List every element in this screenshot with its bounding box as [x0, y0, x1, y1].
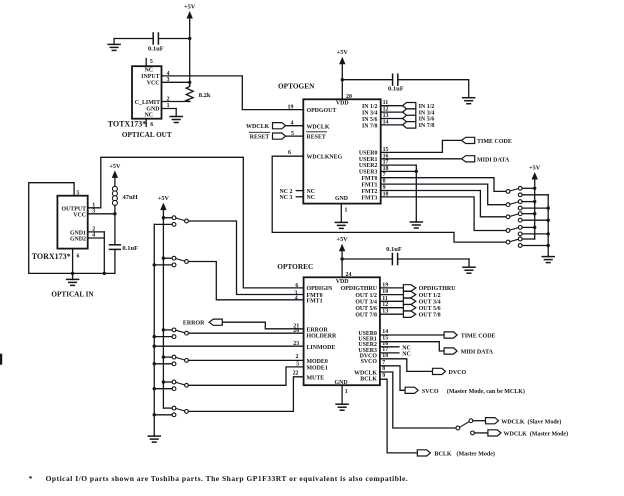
- WDCLK (Slave Mode) flag: [486, 418, 562, 426]
- +5V supply (left switch rail): [158, 195, 170, 408]
- svg-text:BCLK: BCLK: [360, 377, 377, 383]
- svg-text:2: 2: [167, 96, 170, 102]
- svg-text:MIDI DATA: MIDI DATA: [461, 350, 494, 356]
- IN 1/2 - IN 7/8 input flags (OPTOGEN pins 11-14): [381, 100, 435, 129]
- wire ERROR flag to OPTOREC pin 21: [222, 322, 303, 329]
- note: optical parts compatibility: [29, 474, 408, 483]
- svg-text:+5V: +5V: [337, 236, 349, 243]
- wire BCLK pin 9 to flag: [380, 373, 417, 453]
- switch S7 (FMT0 select): [506, 186, 548, 196]
- svg-text:(Master Mode, can be MCLK): (Master Mode, can be MCLK): [447, 388, 525, 395]
- USER3 pin 17 NC stub: [380, 347, 411, 358]
- svg-text:TIME CODE: TIME CODE: [477, 139, 512, 145]
- ground (TOTX GND): [170, 109, 182, 123]
- svg-text:SVCO: SVCO: [361, 359, 378, 365]
- svg-text:LINMODE: LINMODE: [307, 345, 336, 351]
- svg-text:5: 5: [291, 131, 294, 137]
- pin 4 label (TOTX INPUT): [167, 71, 170, 77]
- svg-text:18: 18: [382, 353, 388, 359]
- svg-text:19: 19: [382, 282, 388, 288]
- label TORX173*: [32, 252, 71, 261]
- svg-text:8: 8: [382, 366, 385, 372]
- svg-text:20: 20: [293, 328, 299, 334]
- svg-text:NC: NC: [402, 351, 411, 357]
- label OPTICAL IN: [51, 291, 94, 299]
- svg-text:FMT2: FMT2: [361, 189, 377, 195]
- switch S10 (FMT3 select): [506, 226, 550, 236]
- wire LINMODE pin 23 to ground rail: [153, 341, 304, 348]
- svg-text:16: 16: [383, 153, 389, 159]
- wire ground rail (right switches): [547, 195, 549, 257]
- svg-text:+5V: +5V: [158, 195, 170, 202]
- svg-text:9: 9: [382, 373, 385, 379]
- switch S2 (OPTOREC FMT1 select): [153, 256, 189, 266]
- svg-text:1: 1: [345, 389, 348, 395]
- svg-text:OPDIGIN: OPDIGIN: [307, 286, 334, 292]
- wire FMT3 pin 10 to switch S10: [381, 191, 507, 230]
- wire S4 to OPTOREC MODE0 pin 2: [188, 354, 303, 360]
- wire TOTX GND pin 1: [162, 103, 177, 109]
- svg-text:22: 22: [293, 371, 299, 377]
- +5V supply (right switch rail): [529, 165, 541, 240]
- NC pin 2 (OPTOGEN): [280, 189, 304, 195]
- svg-text:OPDIGTHRU: OPDIGTHRU: [419, 286, 457, 292]
- wire TORX GND2 pin 4: [88, 232, 106, 275]
- svg-text:MIDI DATA: MIDI DATA: [477, 157, 510, 163]
- svg-text:GND2: GND2: [70, 237, 86, 243]
- svg-text:TORX173*: TORX173*: [32, 252, 71, 261]
- svg-text:2: 2: [92, 227, 95, 233]
- DVCO flag: [433, 368, 467, 376]
- svg-text:4: 4: [295, 296, 298, 302]
- svg-text:+5V: +5V: [337, 49, 349, 56]
- svg-text:(Slave Mode): (Slave Mode): [528, 418, 562, 425]
- +5V supply (OPTOGEN VDD): [337, 49, 352, 100]
- capacitor C2 0.1uF (OPTOGEN bypass): [341, 74, 469, 92]
- switch S8 (FMT1 select): [506, 200, 550, 210]
- svg-text:MUTE: MUTE: [307, 376, 325, 382]
- svg-text:WDCLK: WDCLK: [246, 124, 270, 130]
- wire USER1 pin 16 to MIDI DATA flag: [381, 153, 462, 159]
- svg-text:BCLK: BCLK: [435, 452, 452, 458]
- svg-text:NC: NC: [144, 112, 153, 118]
- svg-text:18: 18: [383, 166, 389, 172]
- WDCLK (Master Mode) flag: [488, 430, 568, 438]
- inductor L1 47uH: [112, 186, 137, 205]
- svg-text:IN 5/6: IN 5/6: [362, 117, 378, 123]
- ground (C2): [463, 80, 475, 104]
- svg-text:19: 19: [288, 104, 294, 110]
- svg-text:10: 10: [383, 191, 389, 197]
- svg-text:13: 13: [383, 113, 389, 119]
- svg-text:12: 12: [383, 107, 389, 113]
- wire FMT1 pin 8 to switch S8: [381, 179, 507, 205]
- BCLK (Master Mode) flag: [417, 450, 495, 458]
- wire ground rail (left switches): [153, 224, 155, 436]
- svg-text:13: 13: [382, 309, 388, 315]
- svg-text:RESET: RESET: [307, 135, 326, 141]
- svg-text:WDCLKNEG: WDCLKNEG: [307, 155, 343, 161]
- svg-text:GND1: GND1: [70, 230, 86, 236]
- resistor R1 8.2k: [186, 82, 211, 101]
- svg-text:HOLDERR: HOLDERR: [307, 334, 338, 340]
- wire OPDGOUT: TOTX INPUT to OPTOGEN pin 19: [162, 76, 304, 110]
- switch S11 (WDCLKNEG select): [506, 237, 550, 247]
- svg-text:ERROR: ERROR: [307, 327, 329, 333]
- svg-text:C_LIMIT: C_LIMIT: [135, 100, 160, 106]
- label TOTX173*: [108, 120, 147, 129]
- wire TORX VCC pin 3: [88, 205, 117, 215]
- ground (C3): [463, 259, 475, 273]
- wire USER0 pin 15 to TIME CODE flag: [381, 140, 462, 153]
- svg-text:OUT 5/6: OUT 5/6: [419, 306, 441, 312]
- wire S5 to OPTOREC MODE1 pin 5: [188, 362, 303, 386]
- label OPTOGEN: [278, 81, 315, 90]
- +5V supply (TOTX pull-up): [184, 4, 196, 86]
- svg-text:WDCLK: WDCLK: [354, 370, 377, 376]
- svg-text:NC: NC: [307, 189, 316, 195]
- svg-text:12: 12: [382, 302, 388, 308]
- svg-text:4: 4: [92, 233, 95, 239]
- svg-text:1: 1: [167, 103, 170, 109]
- svg-text:3: 3: [92, 209, 95, 215]
- svg-text:VDD: VDD: [336, 101, 349, 107]
- svg-text:47uH: 47uH: [123, 194, 138, 201]
- wire USER0 pin 14 to TIME CODE flag: [380, 329, 444, 335]
- wire WDCLKNEG pin 6 to switch S11: [272, 150, 506, 242]
- svg-text:ERROR: ERROR: [183, 321, 205, 327]
- wire TOTX VCC pin 3 to +5V: [162, 77, 192, 84]
- svg-text:+5V: +5V: [109, 163, 121, 170]
- svg-text:FMT3: FMT3: [361, 195, 377, 201]
- +5V supply (OPTOREC VDD): [337, 236, 352, 278]
- svg-text:FMT1: FMT1: [361, 182, 377, 188]
- svg-text:8.2k: 8.2k: [199, 92, 211, 99]
- svg-text:USER3: USER3: [359, 170, 378, 176]
- ERROR flag: [183, 319, 222, 327]
- svg-text:6: 6: [295, 283, 298, 289]
- label OPTOREC: [277, 262, 313, 271]
- svg-text:14: 14: [382, 329, 388, 335]
- scan artifact mark (left edge): [0, 354, 2, 365]
- svg-text:OUT 1/2: OUT 1/2: [355, 293, 377, 299]
- optical receiver U3 TORX173*: [57, 196, 87, 274]
- svg-text:INPUT: INPUT: [141, 74, 159, 80]
- RESET input flag: [250, 131, 304, 141]
- wire USER2 pin 17 to ground: [381, 160, 417, 222]
- wire FMT2 pin 9 to switch S9: [381, 185, 507, 217]
- svg-text:OPTICAL IN: OPTICAL IN: [51, 291, 94, 299]
- svg-text:0.1uF: 0.1uF: [386, 246, 402, 253]
- svg-text:MODE0: MODE0: [307, 359, 328, 365]
- svg-text:11: 11: [382, 296, 388, 302]
- svg-text:17: 17: [383, 160, 389, 166]
- svg-text:OUT 1/2: OUT 1/2: [419, 293, 441, 299]
- svg-text:VCC: VCC: [73, 213, 86, 219]
- OPDIGTHRU / OUT output flags (OPTOREC pins 19,10-13): [380, 282, 456, 318]
- svg-text:+5V: +5V: [529, 165, 541, 172]
- svg-text:TOTX173*: TOTX173*: [108, 120, 147, 129]
- svg-text:DVCO: DVCO: [449, 370, 467, 376]
- svg-text:16: 16: [382, 341, 388, 347]
- svg-text:0.1uF: 0.1uF: [122, 245, 138, 252]
- NC pin 3 (OPTOGEN): [280, 195, 304, 201]
- svg-text:14: 14: [383, 119, 389, 125]
- svg-text:OUT 7/8: OUT 7/8: [419, 312, 441, 318]
- svg-text:23: 23: [293, 341, 299, 347]
- svg-text:GND: GND: [335, 196, 348, 202]
- svg-text:USER2: USER2: [359, 163, 378, 169]
- ground (right switch rail): [542, 256, 554, 263]
- svg-text:+5V: +5V: [184, 4, 196, 11]
- svg-text:9: 9: [383, 185, 386, 191]
- switch S5 (MODE1 select): [153, 380, 189, 391]
- wire DVCO pin 18 to flag: [380, 353, 433, 372]
- pin 6 label (OPDIGIN): [295, 283, 298, 289]
- svg-text:NC: NC: [402, 345, 411, 351]
- svg-text:OUT 7/8: OUT 7/8: [355, 313, 377, 319]
- wire FMT0 pin 7 to switch S7: [381, 172, 507, 191]
- capacitor C3 0.1uF (OPTOREC bypass): [340, 246, 469, 264]
- svg-text:FMT0: FMT0: [361, 176, 377, 182]
- optical transmitter U1 TOTX173*: [132, 59, 162, 129]
- svg-text:6: 6: [150, 122, 153, 128]
- svg-text:IN 3/4: IN 3/4: [419, 110, 435, 116]
- svg-text:6: 6: [77, 254, 80, 260]
- ground (TORX pin 6): [67, 272, 79, 286]
- svg-text:5: 5: [296, 362, 299, 368]
- wire SVCO pin 7 to flag: [380, 360, 405, 391]
- svg-text:RESET: RESET: [250, 135, 270, 141]
- svg-text:IN 3/4: IN 3/4: [362, 110, 378, 116]
- svg-text:USER0: USER0: [359, 151, 378, 157]
- TIME CODE flag (OPTOGEN): [462, 137, 512, 145]
- svg-text:11: 11: [383, 100, 389, 106]
- svg-text:WDCLK: WDCLK: [501, 419, 525, 425]
- svg-text:0.1uF: 0.1uF: [148, 46, 164, 53]
- svg-text:USER1: USER1: [359, 157, 378, 163]
- svg-text:5: 5: [150, 59, 153, 65]
- svg-text:IN 7/8: IN 7/8: [362, 123, 378, 129]
- TIME CODE flag (OPTOREC): [444, 332, 495, 340]
- MIDI DATA flag (OPTOREC): [444, 348, 494, 356]
- svg-text:2: 2: [296, 354, 299, 360]
- wire TORX OUTPUT pin 1 to OPTOREC OPDIGIN: [88, 157, 304, 288]
- svg-text:GND: GND: [335, 380, 348, 386]
- svg-text:OPTICAL OUT: OPTICAL OUT: [122, 131, 172, 139]
- svg-text:*: *: [29, 474, 33, 483]
- svg-text:3: 3: [167, 77, 170, 83]
- svg-text:OPDIGTHRU: OPDIGTHRU: [341, 286, 378, 292]
- svg-text:NC: NC: [144, 68, 153, 74]
- capacitor C4 0.1uF (TORX bypass): [110, 214, 139, 274]
- svg-text:10: 10: [382, 289, 388, 295]
- svg-text:4: 4: [291, 120, 294, 126]
- svg-text:0.1uF: 0.1uF: [388, 85, 404, 92]
- WDCLK input flag: [246, 120, 303, 130]
- svg-text:15: 15: [383, 147, 389, 153]
- ground (OPTOREC GND pin 1): [336, 385, 348, 410]
- svg-text:IN 5/6: IN 5/6: [419, 117, 435, 123]
- label OPTICAL OUT: [122, 131, 172, 139]
- switch S9 (FMT2 select): [506, 212, 550, 222]
- +5V supply (TORX via L1): [109, 163, 121, 187]
- ground (OPTOGEN GND pin 1): [335, 204, 347, 229]
- switch S12 (WDCLK slave/master): [456, 419, 488, 435]
- svg-text:IN 1/2: IN 1/2: [419, 104, 435, 110]
- svg-text:NC: NC: [307, 195, 316, 201]
- svg-text:NC 3: NC 3: [280, 195, 293, 201]
- svg-text:7: 7: [382, 360, 385, 366]
- switch S4 (MODE0 select): [153, 355, 189, 365]
- svg-text:1: 1: [345, 208, 348, 214]
- svg-text:MODE1: MODE1: [307, 365, 328, 371]
- IC U4 OPTOREC: [304, 277, 380, 386]
- svg-text:FMT1: FMT1: [307, 299, 323, 305]
- svg-text:OPDGOUT: OPDGOUT: [307, 108, 337, 114]
- svg-text:IN 7/8: IN 7/8: [419, 123, 435, 129]
- svg-text:8: 8: [383, 179, 386, 185]
- svg-text:OPTOREC: OPTOREC: [277, 262, 313, 271]
- svg-text:OUT 3/4: OUT 3/4: [355, 300, 377, 306]
- MIDI DATA flag (OPTOGEN): [462, 156, 510, 164]
- svg-text:Optical I/O parts shown are To: Optical I/O parts shown are Toshiba part…: [46, 474, 409, 483]
- svg-text:TIME CODE: TIME CODE: [461, 334, 496, 340]
- USER2 pin 16 NC stub: [380, 341, 411, 352]
- wire TOTX C_LIMIT pin 2 to R1: [162, 96, 190, 102]
- svg-text:WDCLK: WDCLK: [504, 432, 528, 438]
- wire USER3 pin 18 to ground: [381, 166, 418, 173]
- svg-text:WDCLK: WDCLK: [307, 124, 330, 130]
- svg-text:7: 7: [383, 172, 386, 178]
- switch S1 (OPTOREC FMT0 select): [154, 216, 188, 227]
- svg-text:6: 6: [288, 150, 291, 156]
- svg-text:VCC: VCC: [147, 81, 160, 87]
- wire WDCLK pin 8 to mode switch: [380, 366, 456, 428]
- svg-text:(Master Mode): (Master Mode): [530, 431, 568, 438]
- svg-text:OUTPUT: OUTPUT: [61, 206, 86, 212]
- svg-text:OPTOGEN: OPTOGEN: [278, 81, 315, 90]
- svg-text:VDD: VDD: [336, 279, 349, 285]
- svg-text:OUT 3/4: OUT 3/4: [419, 300, 441, 306]
- capacitor C1 0.1uF (TOTX supply bypass): [114, 33, 191, 53]
- switch S3 (HOLDERR select): [153, 328, 189, 339]
- wire USER1 pin 15 to MIDI DATA flag: [380, 336, 444, 351]
- svg-text:(Master Mode): (Master Mode): [457, 451, 495, 458]
- wire S6 to OPTOREC MUTE pin 22: [188, 371, 303, 412]
- ground (USER2/USER3): [410, 221, 422, 228]
- wire S1 to OPTOREC FMT0 pin 3: [188, 221, 303, 296]
- SVCO flag: [405, 387, 525, 395]
- svg-text:SVCO: SVCO: [422, 389, 439, 395]
- optical receiver U3 TORX173* shield loop: [29, 183, 115, 274]
- svg-text:NC 2: NC 2: [280, 189, 293, 195]
- wire S3 to OPTOREC HOLDERR pin 20: [188, 328, 303, 334]
- svg-text:OUT 5/6: OUT 5/6: [355, 306, 377, 312]
- ground (C1): [108, 39, 120, 51]
- svg-text:IN 1/2: IN 1/2: [362, 104, 378, 110]
- wire S2 to OPTOREC FMT1 pin 4: [188, 262, 303, 302]
- IC U2 OPTOGEN: [303, 99, 380, 203]
- wire TORX GND1 pin 2: [88, 227, 105, 233]
- ground (left switch rail): [148, 435, 160, 442]
- switch S6 (MUTE select): [153, 406, 189, 416]
